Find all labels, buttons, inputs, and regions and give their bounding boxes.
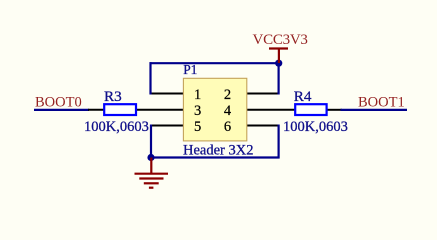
ground symbol stem (150, 158, 152, 174)
svg-text:6: 6 (224, 119, 231, 135)
wire R3 to P1 pin 3 (136, 109, 184, 111)
power port VCC3V3 bar (269, 47, 288, 49)
resistor R3 (104, 104, 136, 115)
wire ground rail horizontal (150, 156, 280, 158)
svg-text:BOOT1: BOOT1 (358, 95, 405, 111)
svg-text:1: 1 (194, 87, 201, 103)
svg-text:2: 2 (224, 87, 231, 103)
wire top horizontal to VCC (150, 62, 280, 64)
svg-text:3: 3 (194, 103, 201, 119)
svg-text:VCC3V3: VCC3V3 (253, 32, 308, 48)
connector P1 body (183, 78, 246, 141)
ground symbol bar 3 (144, 182, 159, 184)
svg-text:R4: R4 (294, 88, 312, 105)
wire P1 pin 6 (247, 125, 280, 127)
wire R3 left pin (88, 109, 105, 111)
svg-text:P1: P1 (183, 62, 197, 77)
resistor R4 (295, 104, 326, 115)
wire pin6 drop to ground rail (278, 125, 280, 159)
ground symbol bar 2 (139, 177, 163, 179)
svg-text:100K,0603: 100K,0603 (84, 119, 149, 135)
svg-text:5: 5 (194, 119, 201, 135)
wire P1 pin 5 (150, 125, 184, 127)
wire P1 pin 4 to R4 (247, 109, 297, 111)
junction node VCC (275, 60, 282, 67)
svg-text:4: 4 (224, 103, 232, 119)
svg-text:100K,0603: 100K,0603 (283, 119, 348, 135)
wire net BOOT0 (34, 109, 89, 111)
wire P1 pin 2 (247, 93, 280, 95)
junction node GND rail (147, 154, 154, 161)
svg-text:BOOT0: BOOT0 (35, 95, 82, 111)
ground symbol bar 4 (149, 187, 154, 189)
power port VCC3V3 stem (278, 49, 280, 64)
svg-text:R3: R3 (104, 88, 122, 105)
wire VCC drop to pin 2 (278, 63, 280, 94)
wire R4 right pin (326, 109, 342, 111)
wire pin1 riser left vertical (149, 62, 151, 94)
wire net BOOT1 (341, 109, 408, 111)
ground symbol bar 1 (135, 173, 169, 175)
wire P1 pin 1 (150, 93, 184, 95)
wire pin5 drop to ground rail (150, 125, 152, 159)
svg-text:Header 3X2: Header 3X2 (183, 143, 253, 159)
